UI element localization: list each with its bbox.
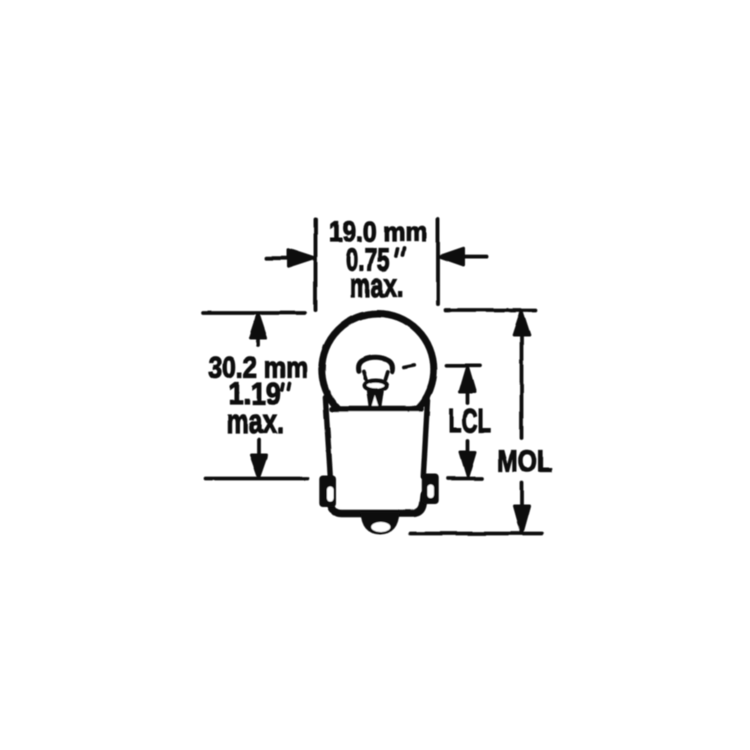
arrow up (30.2mm top) xyxy=(250,314,266,346)
filament collar disc xyxy=(365,380,387,390)
arrow right (pointing left at width line) xyxy=(440,248,487,265)
double prime marks after 1.19 xyxy=(282,384,290,391)
extension line bottom of base (left, for 30.2mm) xyxy=(205,477,307,481)
dimension extension line right (19.0mm width, vertical) xyxy=(436,220,440,305)
svg-text:max.: max. xyxy=(350,268,404,304)
base right pin slot xyxy=(427,485,434,499)
extension line top of bulb (left, for 30.2mm) xyxy=(203,311,305,315)
svg-text:LCL: LCL xyxy=(448,403,491,441)
MOL top extension line xyxy=(446,308,536,312)
base left side xyxy=(325,398,330,478)
base left pin slot xyxy=(327,487,334,502)
arrow left (pointing right at width line) xyxy=(266,250,314,267)
dimension extension line left (19.0mm width, vertical) xyxy=(314,220,318,311)
LCL arrow up xyxy=(460,367,475,404)
filament stem white slit between legs xyxy=(372,396,380,409)
base left bayonet pin xyxy=(319,476,336,508)
svg-text:MOL: MOL xyxy=(497,445,552,479)
arrow down (30.2mm bottom) xyxy=(251,440,267,478)
LCL bottom tick xyxy=(448,477,483,481)
MOL bottom extension line xyxy=(410,532,542,536)
small dash right of filament xyxy=(404,365,415,367)
filament cup left side xyxy=(364,372,366,380)
base right bayonet pin xyxy=(422,474,439,505)
filament cup right side xyxy=(385,372,387,380)
LCL top tick xyxy=(447,363,481,367)
bulb globe (glass envelope) xyxy=(322,314,434,426)
double prime marks after 0.75 xyxy=(396,249,405,257)
base top line xyxy=(332,406,421,412)
white mask hiding globe bottom arc inside base xyxy=(334,407,421,433)
MOL arrow down with stem xyxy=(514,483,529,533)
base bottom shell xyxy=(330,495,425,514)
base right side xyxy=(423,397,427,478)
svg-text:max.: max. xyxy=(227,403,285,441)
MOL arrow up with stem xyxy=(514,311,530,438)
bottom contact highlight notch xyxy=(371,522,390,532)
bottom contact bump xyxy=(361,512,400,535)
filament button cap xyxy=(359,357,393,371)
filament stem (solid, tapering) xyxy=(367,391,385,409)
LCL arrow down xyxy=(461,441,476,477)
